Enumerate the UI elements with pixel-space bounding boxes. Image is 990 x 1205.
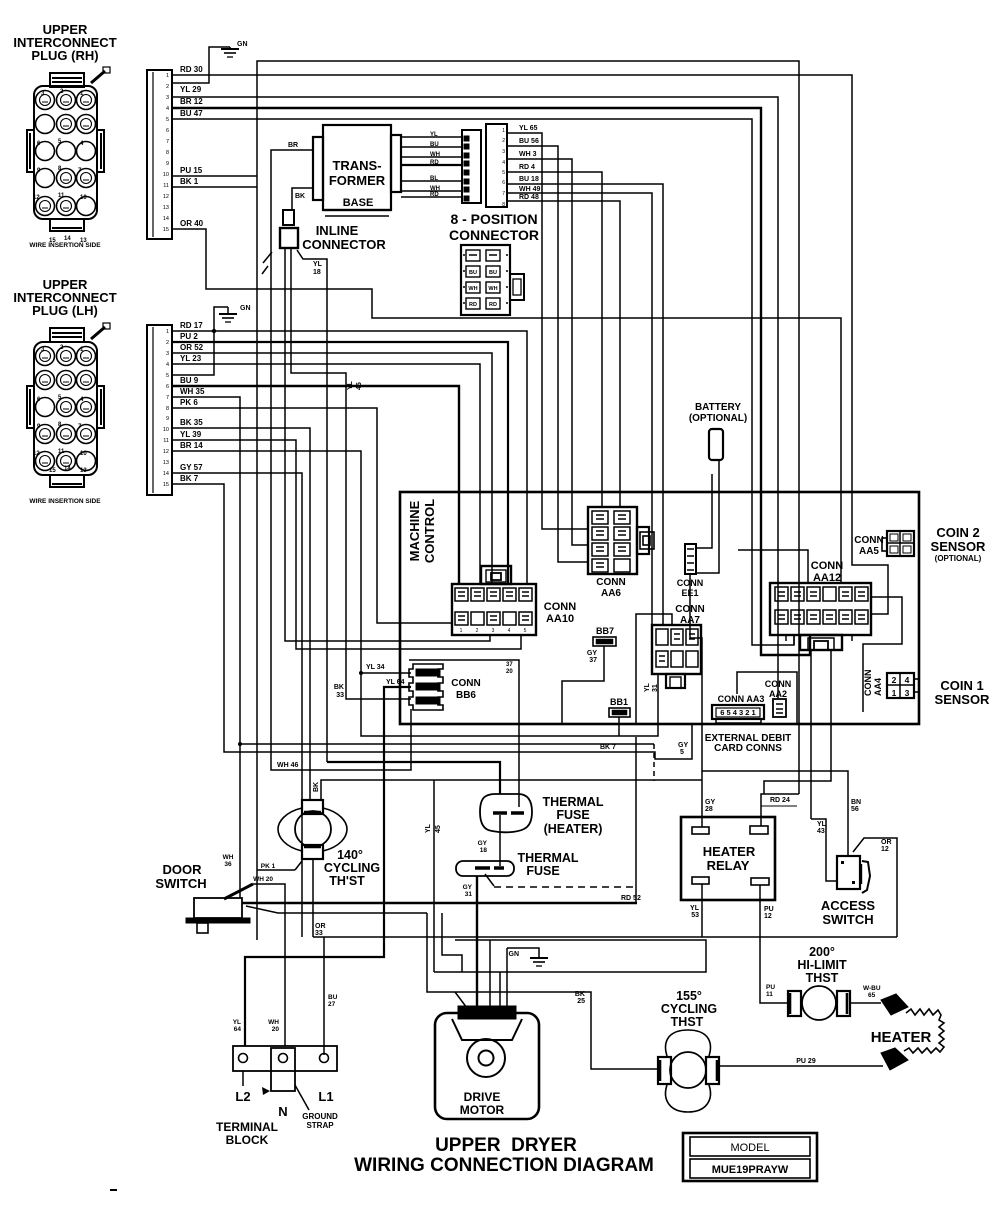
svg-text:53: 53 [691,912,699,919]
svg-text:4: 4 [166,362,169,368]
CONN AA12 latch [800,635,842,650]
svg-text:140°: 140° [337,848,363,862]
wire from 140 thst top to heater relay GY28 [321,780,702,800]
wire CONN AA12 bottom leads [810,650,812,819]
svg-text:AA7: AA7 [680,615,700,626]
wire OR52 (LH pin3) to CONN AA10 [172,353,492,584]
svg-text:5: 5 [166,117,169,123]
svg-text:THERMAL: THERMAL [542,795,603,809]
svg-text:AA6: AA6 [601,588,621,599]
wire into CONN AA12 top (from y550 line) [738,550,808,583]
svg-text:1: 1 [166,73,169,79]
svg-text:5: 5 [524,628,527,634]
wire BU9 (LH pin6, thick) to CONN AA10 [172,386,459,584]
svg-text:33: 33 [315,930,323,937]
svg-text:14: 14 [163,216,169,222]
wire from inline connector (left lead) to CONN AA10 [285,248,490,641]
svg-text:20: 20 [506,669,513,675]
ground GN (top) [229,47,231,49]
svg-text:31: 31 [465,891,473,898]
wire from inline connector (right lead) [291,248,411,699]
stray dash bottom left [110,1189,117,1191]
svg-text:GY 57: GY 57 [180,463,203,472]
label: UPPER INTERCONNECT PLUG (RH) title [13,22,116,63]
svg-text:13: 13 [163,205,169,211]
svg-text:2: 2 [476,628,479,634]
svg-text:13: 13 [163,460,169,466]
connector CONN AA6 [588,507,637,574]
wire YL45 from y780 line down [433,780,435,972]
wire from BB1 [618,717,620,736]
connector strip RH (15-pin) [147,70,172,239]
svg-text:CONN: CONN [811,560,843,572]
CONN AA10 latch [481,566,511,584]
8-pos wire RD4 to CONN AA6 [507,172,602,507]
svg-text:WIRE INSERTION SIDE: WIRE INSERTION SIDE [29,498,101,505]
machine control board box [400,492,919,724]
svg-text:10: 10 [163,427,169,433]
wire BK35 (LH pin10) to 140 thermostat [172,428,310,800]
svg-text:13: 13 [80,468,87,474]
wire path door area to ground line [442,913,462,972]
svg-text:WH 3: WH 3 [519,151,537,158]
svg-text:BU: BU [430,142,439,148]
svg-text:5: 5 [680,749,684,756]
wire riser BK1/PU15 to heater relay RD24 [257,61,799,940]
svg-text:6: 6 [502,180,505,186]
wires down to motor pins [489,940,491,1008]
svg-text:65: 65 [868,992,876,999]
inline connector [283,210,294,225]
svg-text:YL 34: YL 34 [366,664,385,671]
svg-text:TH'ST: TH'ST [329,874,365,888]
svg-text:1: 1 [510,1011,514,1018]
svg-text:CONN: CONN [675,604,704,615]
svg-text:FORMER: FORMER [329,173,386,188]
wire RD17 (LH pin1) to CONN AA10 [172,331,527,584]
svg-text:GY: GY [587,650,597,657]
8-pos wire YL65 [507,133,588,529]
svg-text:WH 35: WH 35 [180,387,205,396]
wire OR33 from 140 thst bottom [312,859,314,937]
svg-text:YL: YL [644,682,651,692]
svg-text:BB7: BB7 [596,626,614,636]
wire BR14 (LH pin12) to CONN BB6 / AA7 [172,451,658,736]
svg-text:(OPTIONAL): (OPTIONAL) [935,554,982,563]
svg-text:CONNECTOR: CONNECTOR [302,237,386,252]
svg-text:DOOR: DOOR [163,862,203,877]
svg-text:200°: 200° [809,945,835,959]
ground strap [271,1048,295,1091]
svg-text:3: 3 [166,351,169,357]
line y940 with U-turn at x706 [434,940,706,972]
svg-text:YL: YL [430,132,438,138]
wire YL34 branch to CONN BB6 [359,671,363,675]
svg-text:AA2: AA2 [769,689,787,699]
svg-text:7: 7 [166,139,169,145]
svg-text:WIRING CONNECTION DIAGRAM: WIRING CONNECTION DIAGRAM [354,1155,654,1176]
svg-text:PLUG (RH): PLUG (RH) [31,48,98,63]
model box [683,1133,817,1181]
svg-text:GN: GN [240,305,251,312]
svg-text:4: 4 [502,160,505,166]
svg-text:W-BU: W-BU [863,985,881,992]
svg-text:9: 9 [166,416,169,422]
svg-text:BN: BN [851,799,861,806]
wire hi-limit to heater [850,1002,881,1004]
connector strip LH (15-pin) [147,325,172,495]
svg-text:3: 3 [492,628,495,634]
svg-text:YL: YL [425,823,432,833]
wire GY28 to heater relay [701,771,703,827]
wire RD30 (RH pin1) [172,75,888,614]
svg-text:WH: WH [430,152,440,158]
wire GY57 (LH pin14) [172,473,302,937]
wire RD52 vertical [635,737,637,903]
svg-text:WH 46: WH 46 [277,762,299,769]
svg-text:GROUND: GROUND [302,1112,338,1121]
svg-text:BATTERY: BATTERY [695,402,741,413]
svg-text:PU 2: PU 2 [180,332,198,341]
svg-text:BK: BK [575,991,585,998]
svg-text:BLOCK: BLOCK [226,1133,269,1147]
svg-text:BU 47: BU 47 [180,109,203,118]
wire PU15 (RH pin10) [172,175,257,177]
svg-text:1: 1 [892,688,897,698]
svg-text:BK 7: BK 7 [180,474,199,483]
connector plug LH body [27,323,110,487]
svg-text:33: 33 [336,692,344,699]
svg-text:10: 10 [80,195,87,201]
wire CONN EE1 down [690,574,702,724]
wire down from door NO line to motor area [427,913,659,1069]
plug LH pin circles [36,347,55,366]
svg-text:CONN: CONN [863,670,873,697]
BB6 area outline with wire down to thermal fuse heater [409,660,519,807]
svg-text:BU 9: BU 9 [180,376,199,385]
svg-text:3: 3 [905,688,910,698]
inline connector lead ticks [263,252,272,263]
svg-text:8: 8 [166,406,169,412]
svg-text:11: 11 [766,991,773,998]
svg-text:YL 29: YL 29 [180,85,202,94]
external debit conns box [737,672,797,725]
svg-text:15: 15 [163,227,169,233]
svg-text:WH 49: WH 49 [519,186,541,193]
svg-text:WH: WH [468,286,477,292]
ground GN (motor) [507,948,539,958]
svg-text:PU: PU [764,906,774,913]
svg-text:4: 4 [166,106,169,112]
wire BR12 (RH pin4, thick) to CONN AA12 [172,108,810,655]
svg-text:3: 3 [166,95,169,101]
svg-text:THERMAL: THERMAL [517,851,578,865]
svg-text:SENSOR: SENSOR [931,539,987,554]
svg-text:BK 1: BK 1 [180,177,199,186]
svg-text:1: 1 [166,329,169,335]
CONN AA6 latch [637,527,649,554]
wire WH35 (LH pin7) to door switch [172,397,240,898]
svg-text:8: 8 [502,202,505,208]
connector CONN AA7 [652,625,701,674]
svg-text:GY: GY [463,884,473,891]
wire PU29 heater to 155 thst [719,1065,883,1067]
svg-text:INLINE: INLINE [316,223,359,238]
svg-text:YL 39: YL 39 [180,430,202,439]
drive motor body [435,1013,539,1119]
svg-text:PLUG (LH): PLUG (LH) [32,303,98,318]
svg-text:PU 15: PU 15 [180,166,203,175]
svg-text:OR 52: OR 52 [180,343,204,352]
wire YL31 from CONN AA7 [636,614,672,724]
svg-text:YL: YL [313,261,323,268]
svg-text:BK 35: BK 35 [180,418,203,427]
svg-text:31: 31 [652,684,659,692]
svg-text:56: 56 [851,806,859,813]
wire BK label at thermostat top [313,782,320,792]
svg-text:BK 7: BK 7 [600,744,616,751]
svg-text:4: 4 [478,1011,482,1018]
svg-text:(OPTIONAL): (OPTIONAL) [689,413,747,424]
label: UPPER INTERCONNECT PLUG (LH) title [13,277,116,318]
svg-text:11: 11 [163,183,169,189]
svg-text:CONN: CONN [451,678,480,689]
wire BR transformer left [271,150,411,770]
svg-text:GY: GY [478,840,488,847]
connector CONN EE1 [685,544,696,574]
svg-text:RD 48: RD 48 [519,194,539,201]
svg-text:25: 25 [577,998,585,1005]
wire LH pin5 to ground [172,307,228,375]
svg-text:PU: PU [766,984,775,991]
8-pos wire RD48 to CONN AA7 [507,201,620,507]
svg-text:6: 6 [470,1011,474,1018]
svg-text:HI-LIMIT: HI-LIMIT [797,958,847,972]
transformer T1 [313,125,401,216]
svg-text:CONN AA3: CONN AA3 [718,694,765,704]
svg-text:RELAY: RELAY [707,858,750,873]
svg-text:18: 18 [313,269,321,276]
svg-text:36: 36 [224,861,232,868]
svg-text:YL 64: YL 64 [386,679,405,686]
svg-text:RD 17: RD 17 [180,321,203,330]
svg-text:RD 4: RD 4 [519,164,535,171]
svg-text:THST: THST [806,971,839,985]
svg-text:UPPER DRYER: UPPER DRYER [435,1135,577,1156]
svg-text:BK: BK [295,193,305,200]
svg-text:RD: RD [430,192,439,198]
svg-text:AA12: AA12 [813,572,841,584]
8-pos wire BU56 to CONN AA6 [507,146,588,562]
svg-text:SWITCH: SWITCH [155,876,206,891]
svg-text:14: 14 [163,471,169,477]
svg-text:18: 18 [480,847,488,854]
wire door switch common (thick) RD52 line [242,902,637,905]
wire BK7 (LH pin15) [172,484,692,759]
svg-text:45: 45 [356,382,363,390]
connector CONN AA12 [770,583,871,635]
svg-text:12: 12 [33,195,40,201]
svg-text:CONN: CONN [854,535,883,546]
svg-text:AA5: AA5 [859,546,879,557]
svg-text:28: 28 [705,806,713,813]
wire OR40 (RH pin15) to CONN AA12 [172,229,841,583]
svg-text:ACCESS: ACCESS [821,898,876,913]
svg-text:SWITCH: SWITCH [822,912,873,927]
svg-text:37: 37 [589,657,597,664]
svg-text:YL: YL [347,380,354,390]
svg-text:2: 2 [462,1011,466,1018]
long line y937 (140thst to access switch) [313,936,897,938]
svg-text:5: 5 [486,1011,490,1018]
svg-text:BR 14: BR 14 [180,441,203,450]
svg-text:3: 3 [494,1011,498,1018]
svg-text:RD 52: RD 52 [621,895,641,902]
wire YL64 (machine control to terminal L2) [245,687,411,1046]
heater element [881,994,908,1015]
wire GY31 thermal fuse to motor (thick) [476,876,478,1008]
svg-text:L2: L2 [235,1089,250,1104]
svg-text:11: 11 [58,193,65,199]
wire CONN AA12 right to CONN AA4 area [863,597,902,712]
svg-text:YL 65: YL 65 [519,125,538,132]
access switch [837,856,860,889]
svg-text:3: 3 [502,149,505,155]
svg-text:HEATER: HEATER [703,844,756,859]
svg-text:CYCLING: CYCLING [324,861,380,875]
N arrow [262,1087,270,1095]
wire PU2 (LH pin2) to CONN AA10 [172,342,508,584]
svg-text:BASE: BASE [343,197,374,209]
svg-text:GN: GN [237,41,248,48]
svg-text:OR: OR [315,923,326,930]
svg-text:WH: WH [268,1019,279,1026]
wire BK1 (RH pin11) [172,186,257,188]
svg-text:8 - POSITION: 8 - POSITION [450,211,537,227]
svg-text:15: 15 [49,468,56,474]
svg-text:YL: YL [233,1019,241,1026]
wire BK transformer left to inline connector [292,188,313,210]
svg-text:(HEATER): (HEATER) [544,822,603,836]
svg-text:BK: BK [334,684,344,691]
svg-text:OR 40: OR 40 [180,219,204,228]
svg-text:14: 14 [64,466,71,472]
svg-text:2: 2 [166,84,169,90]
svg-text:37: 37 [506,662,513,668]
svg-text:20: 20 [272,1026,280,1033]
junction dot RD17/ground [212,329,216,333]
drive motor shaft circles [467,1039,505,1077]
svg-text:BR 12: BR 12 [180,97,203,106]
svg-text:OR: OR [881,839,892,846]
svg-text:CONTROL: CONTROL [422,499,437,563]
svg-text:GN: GN [509,951,520,958]
svg-text:HEATER: HEATER [871,1029,932,1046]
svg-text:BU 18: BU 18 [519,176,539,183]
connector CONN AA4 [863,670,883,697]
svg-text:2: 2 [502,138,505,144]
drive motor connector [458,1006,516,1019]
connector CONN BB6 [409,664,443,710]
svg-text:155°: 155° [676,989,702,1003]
svg-text:BU: BU [489,270,497,276]
svg-text:PK 1: PK 1 [261,863,276,870]
wire YL23 (LH pin4) to CONN AA10 [172,364,480,584]
svg-text:12: 12 [764,913,772,920]
svg-text:RD 24: RD 24 [770,797,790,804]
svg-text:DRIVE: DRIVE [464,1090,501,1104]
ground GN (LH) [227,307,229,314]
8-pos wire BU18 to CONN AA6 [507,184,663,625]
svg-text:THST: THST [671,1015,704,1029]
svg-text:CONN: CONN [765,679,792,689]
svg-text:1: 1 [460,628,463,634]
wire BU27 to terminal L1 [323,937,325,1055]
transformer secondary wires to 8-position connector [401,136,462,138]
svg-text:9: 9 [166,161,169,167]
svg-text:15: 15 [163,482,169,488]
svg-text:BK: BK [313,782,320,792]
CONN AA7 latch [666,674,685,688]
thermal fuse [456,861,514,876]
svg-text:RD: RD [489,302,497,308]
connector CONN AA10 [452,584,536,635]
svg-text:WH 20: WH 20 [253,876,273,883]
heater relay K1 [681,817,775,900]
svg-text:YL: YL [690,905,700,912]
svg-text:7: 7 [502,191,505,197]
wire from BB7 [562,646,604,724]
svg-text:RD 30: RD 30 [180,65,203,74]
wire YL53 heater relay to y937 line [701,884,703,937]
8-position connector strip A [462,130,481,203]
svg-text:YL 23: YL 23 [180,354,202,363]
svg-text:8: 8 [166,150,169,156]
svg-text:43: 43 [817,828,825,835]
svg-text:CARD CONNS: CARD CONNS [714,743,782,754]
wire WH20 to terminal N [253,884,285,1046]
svg-text:RD: RD [469,302,477,308]
wire OR12 from access switch [853,838,897,937]
svg-text:5: 5 [502,1011,506,1018]
svg-text:MODEL: MODEL [730,1142,769,1154]
svg-text:11: 11 [163,438,169,444]
8-pos wire WH3 to CONN AA6 [507,159,588,545]
svg-text:MACHINE: MACHINE [407,500,422,561]
svg-text:BU: BU [469,270,477,276]
svg-text:4: 4 [508,628,511,634]
140 deg cycling thermostat [278,808,302,851]
svg-text:CONN: CONN [596,577,625,588]
wire RD24 jog to heater relay [761,794,799,826]
thermal fuse (heater) [480,794,532,832]
wire YL29 (RH pin3) [172,97,778,698]
svg-text:6 5 4 3 2 1: 6 5 4 3 2 1 [720,708,755,717]
svg-text:BB1: BB1 [610,697,628,707]
svg-text:11: 11 [58,449,65,455]
svg-text:12: 12 [163,194,169,200]
svg-text:N: N [278,1104,287,1119]
wire diagonal into drive motor pin [455,992,467,1008]
wire RD52 dashed from thermal fuse [485,874,494,886]
svg-text:WH: WH [488,286,497,292]
svg-text:SENSOR: SENSOR [935,692,990,707]
svg-text:STRAP: STRAP [306,1121,334,1130]
svg-text:CONN: CONN [544,601,576,613]
svg-text:4: 4 [905,675,910,685]
svg-text:WIRE INSERTION SIDE: WIRE INSERTION SIDE [29,242,101,249]
wire PK6 (LH pin8) to CONN AA10 [172,408,452,623]
